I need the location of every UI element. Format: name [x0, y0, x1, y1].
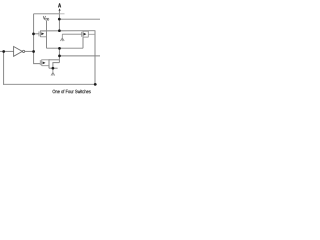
wire Q2 gate feed	[62, 33, 81, 35]
node A arrow	[59, 8, 61, 10]
wire Q3 right bar down	[48, 59, 50, 68]
node inverter out	[32, 50, 35, 53]
transistor Q1	[39, 30, 47, 37]
wire right vertical rail	[94, 31, 96, 85]
node control top	[58, 18, 61, 21]
label VDD	[43, 16, 49, 20]
wire Q3 bottom to well node	[49, 67, 53, 69]
op-amp inverter U1	[14, 47, 25, 57]
wire Q2 source stub right	[88, 33, 95, 35]
wire Q3 top lead	[49, 59, 59, 61]
wire VDD horizontal rail	[40, 30, 95, 32]
transistor Q2 arrow	[84, 33, 87, 36]
transistor Q3 arrow	[43, 62, 46, 65]
wire switch node horizontal	[47, 47, 84, 49]
node well	[52, 67, 55, 70]
well symbol fork 1 (Q2 gate line)	[60, 34, 64, 41]
node gate bus Q1	[32, 33, 35, 36]
wire input branch down	[3, 51, 5, 84]
wire step down	[53, 63, 60, 69]
wire output to right edge	[59, 55, 100, 57]
wire Q1 gate feed	[34, 33, 39, 35]
wire bottom rail	[3, 83, 97, 85]
wire top horizontal faint tail	[59, 13, 64, 15]
well symbol fork 2 (well node)	[51, 68, 55, 76]
wire control vertical under A	[58, 10, 60, 31]
wire top horizontal	[34, 13, 60, 15]
wire control input left	[0, 50, 14, 52]
wire VDD stub + Q1 right bar + down lead	[46, 21, 48, 48]
node control rail	[58, 29, 61, 32]
node output	[58, 55, 61, 58]
wire center vertical node	[58, 48, 60, 62]
node switch mid	[58, 47, 61, 50]
junction dots	[2, 18, 96, 86]
wire inverter output	[25, 50, 34, 52]
node input branch	[2, 50, 5, 53]
node A label	[58, 3, 61, 7]
transistor Q2	[82, 31, 89, 38]
wire left gate bus	[34, 14, 41, 64]
transistor Q3	[40, 59, 49, 65]
wire well node stub right	[53, 67, 58, 69]
node bottom rail	[94, 83, 97, 86]
transistor Q1 arrow	[41, 32, 44, 35]
wire Q2 bottom lead	[82, 37, 84, 48]
wire control to right edge	[59, 18, 100, 20]
caption text One of Four Switches	[53, 90, 91, 94]
